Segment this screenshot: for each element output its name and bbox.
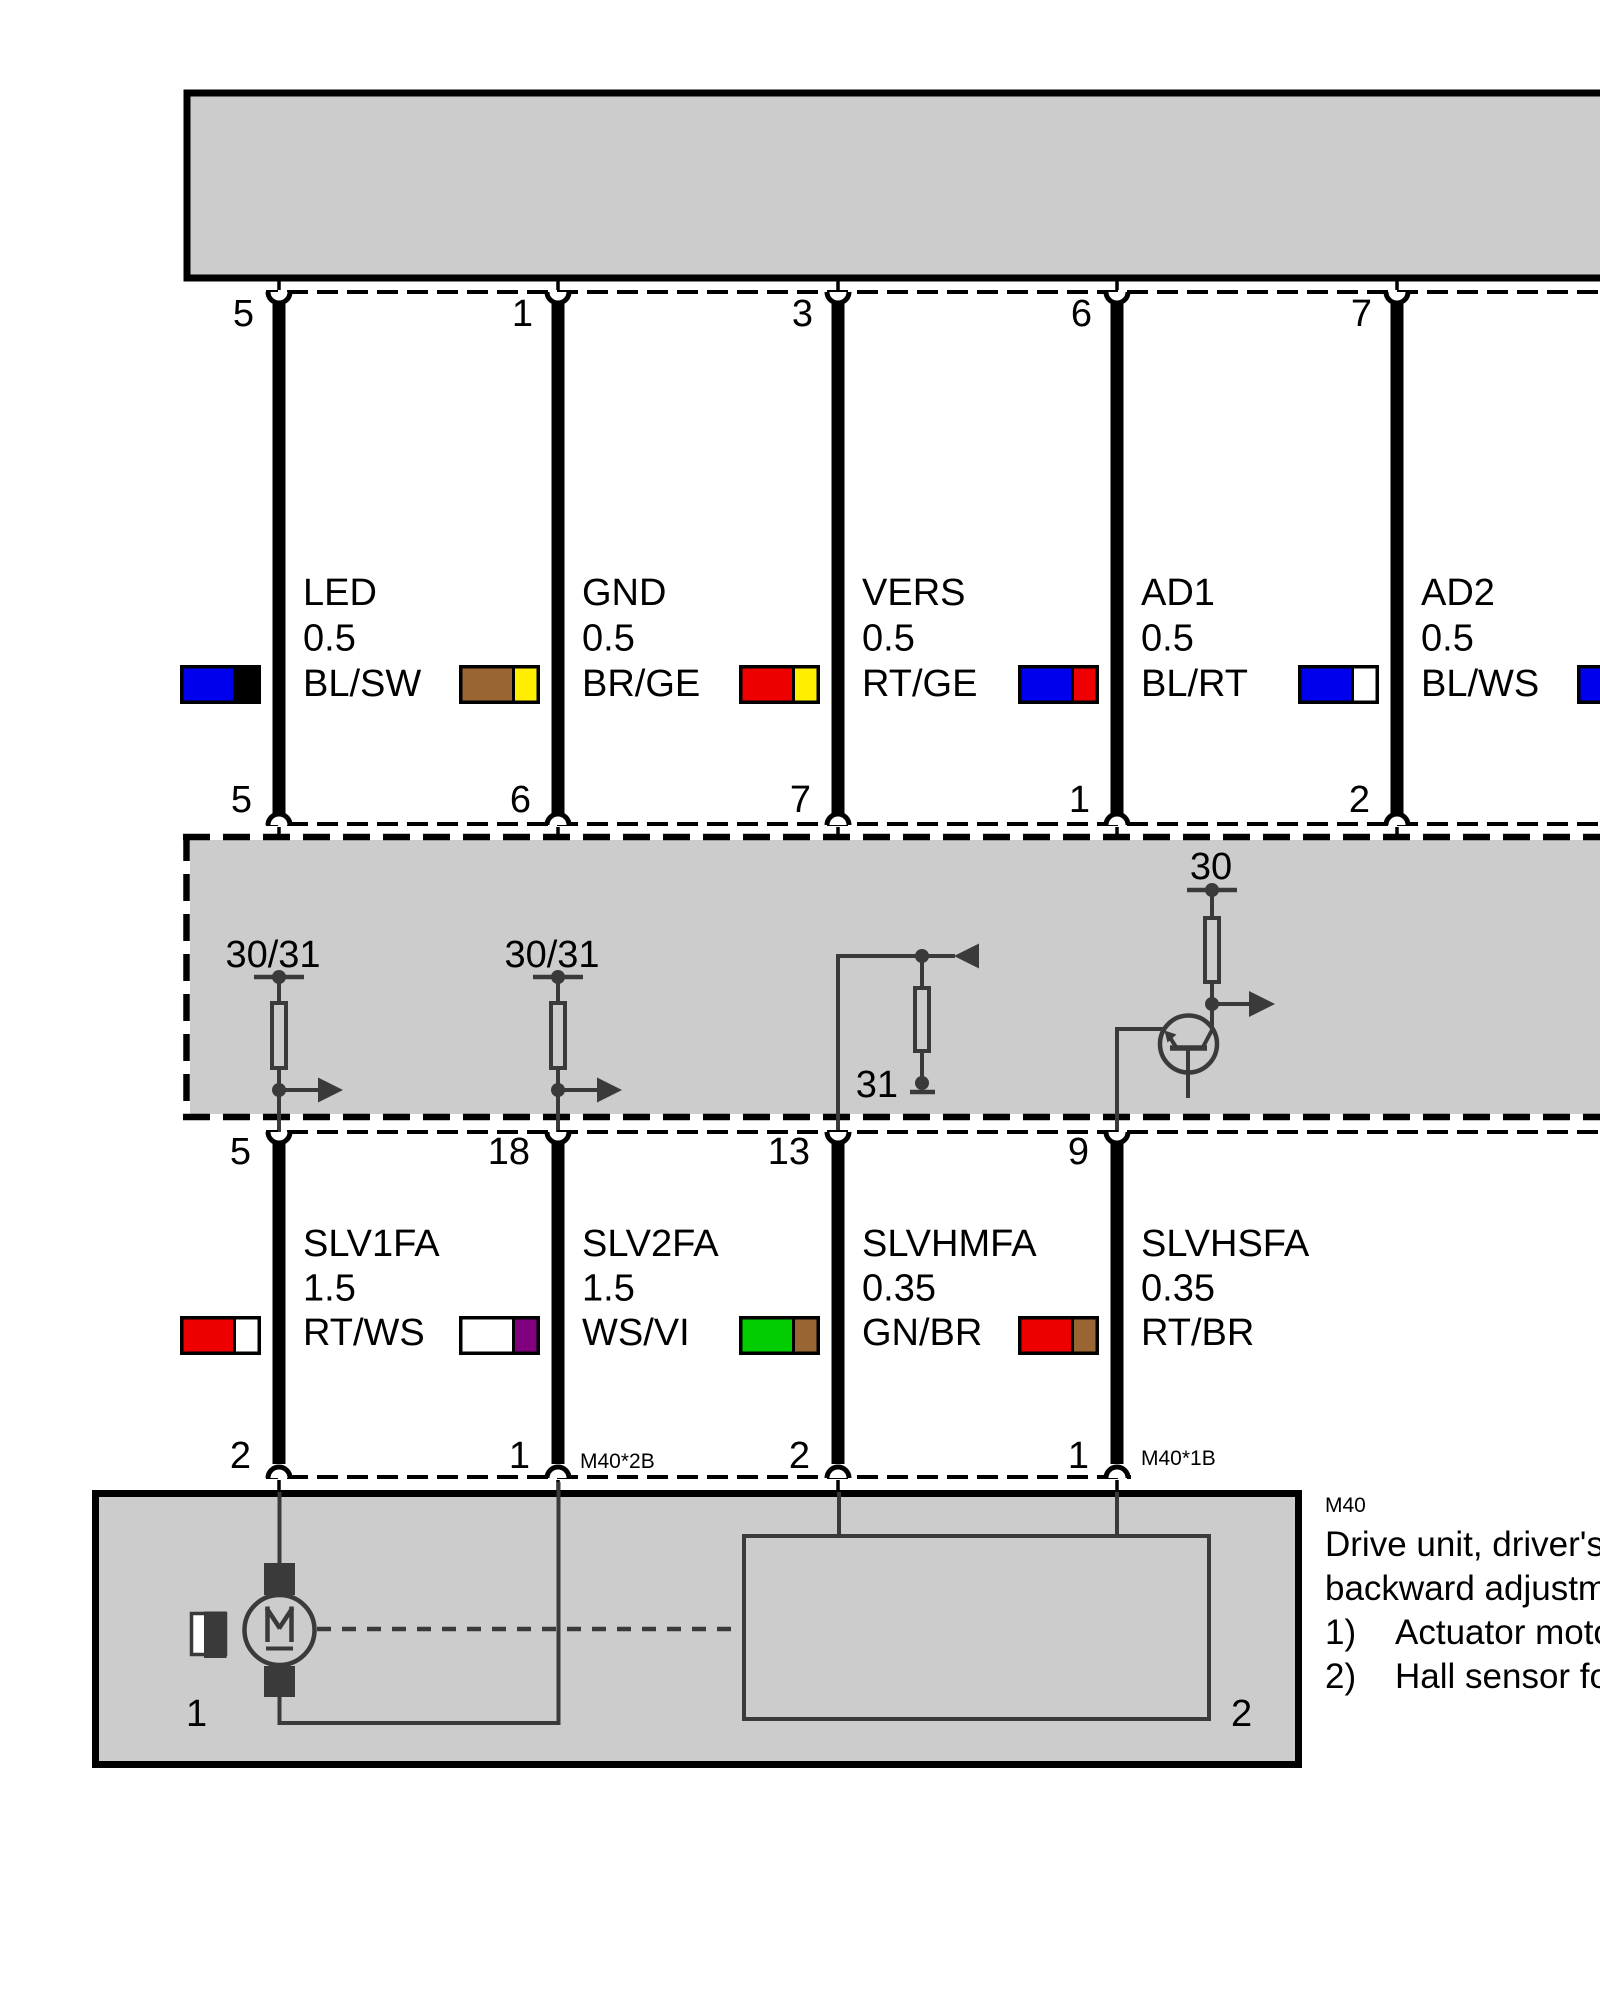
svg-text:0.5: 0.5 <box>1141 618 1194 660</box>
terminal 30 symbol <box>1187 846 1237 897</box>
connector socket (top) pin 5 <box>268 292 290 303</box>
wire pin2 to actuator motor <box>278 1492 282 1566</box>
svg-text:0.35: 0.35 <box>862 1268 936 1310</box>
pin stub from control unit, pin 7 <box>1395 279 1399 290</box>
svg-text:Actuator motor: Actuator motor <box>1395 1613 1600 1652</box>
svg-text:LED: LED <box>303 572 377 614</box>
wire pin1 (M40*1B) to hall sensor <box>1115 1492 1119 1536</box>
colour swatch BL (partial, right edge) <box>1577 665 1600 704</box>
junction node on SLV1FA <box>272 1083 286 1097</box>
svg-text:1: 1 <box>1068 1435 1089 1477</box>
pin stub into drive unit <box>277 1480 281 1492</box>
pin stub into seat module, pin 1 <box>1115 827 1119 839</box>
svg-text:BL/WS: BL/WS <box>1421 663 1539 705</box>
svg-text:SLVHSFA: SLVHSFA <box>1141 1223 1310 1265</box>
junction node on SLV2FA <box>551 1083 565 1097</box>
wire from node down to pin <box>277 1090 281 1133</box>
base wire from SLVHSFA pin <box>1117 1029 1165 1133</box>
svg-text:0.5: 0.5 <box>582 618 635 660</box>
svg-text:backward adjustment: backward adjustment <box>1325 1569 1600 1608</box>
resistor (SLVHMFA to ground) <box>915 956 929 1083</box>
svg-text:AD2: AD2 <box>1421 572 1495 614</box>
transistor Q (hall output) <box>1160 1004 1217 1098</box>
svg-text:RT/GE: RT/GE <box>862 663 977 705</box>
wire AD2 BL/WS (vertical run) <box>1391 304 1404 815</box>
svg-text:1.5: 1.5 <box>582 1268 635 1310</box>
svg-text:SLV2FA: SLV2FA <box>582 1223 719 1265</box>
colour swatch RT/WS <box>180 1316 261 1355</box>
connector socket (dome) pin 1 <box>547 1467 569 1478</box>
connector socket (cup) pin 18 <box>547 1132 569 1143</box>
svg-text:30/31: 30/31 <box>225 934 320 976</box>
colour swatch GN/BR <box>739 1316 820 1355</box>
colour swatch RT/GE <box>739 665 820 704</box>
drive unit M40 (bottom box) <box>96 1494 1299 1765</box>
pin stub into seat module, pin 2 <box>1395 827 1399 839</box>
svg-text:VERS: VERS <box>862 572 965 614</box>
pin stub from control unit, pin 5 <box>277 279 281 290</box>
svg-text:M40*1B: M40*1B <box>1141 1447 1216 1470</box>
svg-text:SLVHMFA: SLVHMFA <box>862 1223 1037 1265</box>
wire AD1 BL/RT (vertical run) <box>1111 304 1124 815</box>
connector socket (cup) pin 5 <box>268 1132 290 1143</box>
svg-text:M40*2B: M40*2B <box>580 1450 655 1473</box>
signal arrow (output) from SLV1FA node <box>279 1078 343 1103</box>
svg-text:Hall sensor for position detec: Hall sensor for position detection <box>1395 1657 1600 1696</box>
resistor (pull-up on SLV1FA) <box>272 977 286 1090</box>
junction node SLVHMFA <box>915 949 929 963</box>
colour swatch BL/RT <box>1018 665 1099 704</box>
connector plane (below seat module, dashed) <box>266 1130 1600 1134</box>
colour swatch RT/BR <box>1018 1316 1099 1355</box>
svg-text:Drive unit, driver's seat forw: Drive unit, driver's seat forward/ <box>1325 1525 1600 1564</box>
svg-text:5: 5 <box>233 293 254 335</box>
svg-text:2: 2 <box>230 1435 251 1477</box>
connector plane (above seat module, dashed) <box>266 822 1600 826</box>
connector plane (above drive unit, dashed) <box>266 1475 1131 1479</box>
wire SLV1FA RT/WS (vertical run) <box>273 1144 286 1464</box>
resistor (pull-up on SLV2FA) <box>551 977 565 1090</box>
svg-text:6: 6 <box>510 779 531 821</box>
colour swatch BL/WS <box>1298 665 1379 704</box>
svg-text:7: 7 <box>790 779 811 821</box>
terminal 30/31 symbol <box>504 934 599 984</box>
connector socket (dome) pin 1 <box>1106 814 1128 825</box>
svg-text:30: 30 <box>1190 846 1232 888</box>
connector socket (dome) pin 5 <box>268 814 290 825</box>
pin stub into drive unit <box>1115 1480 1119 1492</box>
svg-text:7: 7 <box>1351 293 1372 335</box>
wire SLV2FA WS/VI (vertical run) <box>552 1144 565 1464</box>
wire motor to pin 1 (M40*2B) <box>280 1482 559 1723</box>
pin stub from control unit, pin 6 <box>1115 279 1119 290</box>
svg-text:2): 2) <box>1325 1657 1356 1696</box>
wire SLVHSFA RT/BR (vertical run) <box>1111 1144 1124 1464</box>
svg-text:BL/SW: BL/SW <box>303 663 421 705</box>
connector socket (cup) pin 13 <box>827 1132 849 1143</box>
svg-text:0.35: 0.35 <box>1141 1268 1215 1310</box>
svg-text:0.5: 0.5 <box>862 618 915 660</box>
connector socket (cup) pin 9 <box>1106 1132 1128 1143</box>
wire from node down to pin <box>556 1090 560 1133</box>
signal arrow (output) from collector node <box>1212 991 1275 1017</box>
hall sensor box (2) <box>744 1536 1209 1719</box>
pin stub from control unit, pin 3 <box>836 279 840 290</box>
pin stub into seat module, pin 6 <box>556 827 560 839</box>
svg-text:GND: GND <box>582 572 666 614</box>
ground 31 symbol <box>856 1064 935 1106</box>
connector socket (top) pin 3 <box>827 292 849 303</box>
connector socket (dome) pin 2 <box>268 1467 290 1478</box>
signal arrow (input) into SLVHMFA node <box>922 944 979 969</box>
svg-text:13: 13 <box>768 1131 810 1173</box>
colour swatch WS/VI <box>459 1316 540 1355</box>
connector socket (top) pin 7 <box>1386 292 1408 303</box>
svg-text:M40: M40 <box>1325 1494 1366 1517</box>
connector socket (dome) pin 6 <box>547 814 569 825</box>
svg-text:1: 1 <box>186 1693 207 1735</box>
svg-text:GN/BR: GN/BR <box>862 1312 982 1354</box>
colour swatch BL/SW <box>180 665 261 704</box>
svg-text:1: 1 <box>1069 779 1090 821</box>
wire GND BR/GE (vertical run) <box>552 304 565 815</box>
pin stub into seat module, pin 7 <box>836 827 840 839</box>
connector socket (dome) pin 1 <box>1106 1467 1128 1478</box>
connector socket (top) pin 1 <box>547 292 569 303</box>
mechanical link motor to hall sensor (dashed) <box>317 1627 744 1632</box>
colour swatch BR/GE <box>459 665 540 704</box>
svg-text:1: 1 <box>509 1435 530 1477</box>
connector socket (top) pin 6 <box>1106 292 1128 303</box>
junction node (collector / output) <box>1205 997 1219 1011</box>
svg-text:AD1: AD1 <box>1141 572 1215 614</box>
svg-text:0.5: 0.5 <box>303 618 356 660</box>
svg-text:2: 2 <box>789 1435 810 1477</box>
svg-text:SLV1FA: SLV1FA <box>303 1223 440 1265</box>
resistor (collector pull-up from terminal 30) <box>1205 890 1219 1004</box>
pin stub into drive unit <box>836 1480 840 1492</box>
connector plane (top, dashed) <box>266 290 1600 294</box>
svg-text:2: 2 <box>1349 779 1370 821</box>
svg-text:18: 18 <box>488 1131 530 1173</box>
pin stub from control unit, pin 1 <box>556 279 560 290</box>
svg-text:3: 3 <box>792 293 813 335</box>
pin stub into seat module, pin 5 <box>277 827 281 839</box>
connector socket (dome) pin 2 <box>827 1467 849 1478</box>
svg-text:31: 31 <box>856 1064 898 1106</box>
svg-text:5: 5 <box>230 1131 251 1173</box>
seat module (middle band, dashed outline) <box>190 840 1600 1114</box>
svg-text:30/31: 30/31 <box>504 934 599 976</box>
brush/connector icon left of motor <box>192 1612 227 1659</box>
svg-text:RT/WS: RT/WS <box>303 1312 425 1354</box>
svg-text:WS/VI: WS/VI <box>582 1312 690 1354</box>
connector socket (dome) pin 2 <box>1386 814 1408 825</box>
terminal 30/31 symbol <box>225 934 320 984</box>
signal arrow (output) from SLV2FA node <box>558 1078 622 1103</box>
svg-text:9: 9 <box>1068 1131 1089 1173</box>
wire LED BL/SW (vertical run) <box>273 304 286 815</box>
pin stub into drive unit <box>556 1480 560 1492</box>
svg-text:6: 6 <box>1071 293 1092 335</box>
wire SLVHMFA inside module (up and right) <box>838 956 920 1133</box>
svg-text:0.5: 0.5 <box>1421 618 1474 660</box>
svg-text:BL/RT: BL/RT <box>1141 663 1248 705</box>
svg-text:2: 2 <box>1231 1693 1252 1735</box>
svg-text:1.5: 1.5 <box>303 1268 356 1310</box>
connector socket (dome) pin 7 <box>827 814 849 825</box>
svg-text:1): 1) <box>1325 1613 1356 1652</box>
actuator motor M (1) <box>245 1563 315 1697</box>
svg-text:RT/BR: RT/BR <box>1141 1312 1254 1354</box>
wire SLVHMFA GN/BR (vertical run) <box>832 1144 845 1464</box>
control unit (top module) <box>187 93 1600 278</box>
wire pin2 (M40*1B) to hall sensor <box>837 1492 841 1536</box>
wire VERS RT/GE (vertical run) <box>832 304 845 815</box>
svg-text:BR/GE: BR/GE <box>582 663 700 705</box>
svg-text:1: 1 <box>512 293 533 335</box>
svg-text:5: 5 <box>231 779 252 821</box>
